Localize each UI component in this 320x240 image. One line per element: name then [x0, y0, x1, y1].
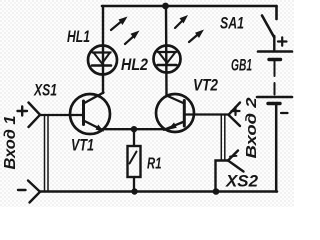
connector XS2 minus contact (fork): [228, 151, 244, 172]
HL2 light arrow a: [175, 15, 188, 28]
transistor VT1: [70, 93, 110, 135]
junction dot top rail / HL2 branch: [162, 3, 169, 10]
svg-text:XS1: XS1: [33, 81, 57, 100]
minus sign input 1: [18, 189, 26, 191]
svg-text:R1: R1: [147, 156, 162, 173]
wire bottom rail: [40, 190, 277, 193]
switch SA1: [262, 6, 277, 50]
svg-text:VT1: VT1: [71, 136, 94, 155]
wire XS2 minus jog: [216, 161, 229, 192]
battery GB1 cell 1 negative plate: [269, 58, 281, 61]
junction dot XS2 bottom: [213, 188, 220, 195]
connector XS2 body (double line): [221, 116, 225, 160]
svg-text:VT2: VT2: [193, 76, 218, 95]
LED HL2: [154, 46, 181, 73]
resistor R1 (0.125W slash): [128, 146, 141, 177]
connector XS2 plus contact (fork): [229, 103, 241, 127]
LED HL1: [88, 46, 117, 75]
battery GB1 cell 2 positive plate: [257, 96, 292, 99]
svg-text:Вход 1: Вход 1: [2, 115, 19, 169]
battery GB1 dashed multi-cell link: [274, 61, 276, 95]
wire battery to bottom rail: [275, 105, 278, 192]
svg-text:HL2: HL2: [121, 55, 148, 74]
HL1 light arrow a: [111, 17, 128, 31]
plus sign input 2: [232, 107, 240, 115]
minus sign battery: [281, 112, 288, 114]
plus sign battery: [278, 37, 287, 45]
connector XS1 body (double line): [45, 116, 49, 192]
connector XS1 minus contact (fork): [28, 181, 40, 203]
wire R1 top lead: [133, 129, 135, 146]
battery GB1 cell 2 negative plate: [268, 102, 280, 105]
svg-text:HL1: HL1: [67, 27, 90, 46]
battery GB1 cell 1 positive plate: [258, 50, 292, 53]
wire emitter rail: [103, 128, 165, 130]
svg-text:SA1: SA1: [220, 14, 244, 33]
svg-text:Вход 2: Вход 2: [243, 97, 260, 159]
junction dot R1 top: [131, 126, 137, 132]
wire VT2 base lead: [184, 113, 228, 115]
wire HL1 branch (top rail to VT1 collector): [102, 6, 104, 93]
svg-text:GB1: GB1: [231, 56, 252, 75]
HL2 light arrow b: [189, 30, 204, 43]
svg-text:XS2: XS2: [225, 172, 259, 191]
HL1 light arrow b: [125, 31, 140, 45]
junction dot R1 bottom: [131, 188, 137, 194]
wire VT1 base lead: [40, 114, 82, 116]
transistor VT2 (mirrored): [156, 94, 194, 132]
wire top rail: [102, 5, 277, 8]
connector XS1 plus contact (fork): [29, 103, 41, 128]
wire HL2 branch (top rail to VT2 collector): [165, 6, 168, 96]
plus sign input 1: [18, 107, 28, 116]
wire R1 bottom lead: [133, 177, 135, 192]
